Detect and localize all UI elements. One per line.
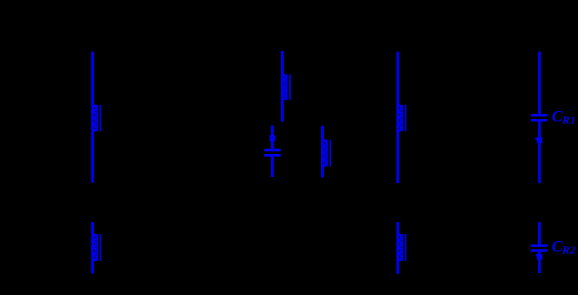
inductor branch3 upper (iron core) [398, 105, 406, 131]
wire branch2 left sub-branch upper [271, 126, 274, 150]
arrow marker below CR2 [536, 254, 543, 260]
wire branch2 left sub-branch lower [271, 157, 274, 177]
svg-text:C: C [552, 237, 563, 255]
wire branch4 top [538, 52, 541, 115]
inductor branch1 upper (iron core) [93, 105, 101, 131]
inductor branch2 series (iron core) [282, 74, 290, 100]
wire branch1 top [91, 52, 94, 183]
arrow marker below CR1 [535, 137, 542, 143]
capacitor CR2 [531, 246, 548, 251]
label CR1 [552, 108, 576, 127]
inductor branch2 right (iron core) [323, 140, 331, 167]
wire branch1 bottom [91, 222, 94, 273]
svg-text:C: C [552, 108, 563, 126]
label CR2 [552, 237, 576, 256]
wire branch3 bottom [396, 222, 399, 274]
wire branch4 bottom [538, 252, 541, 273]
wire branch4 lower [538, 222, 541, 245]
wire branch2 top [281, 51, 284, 122]
wire branch3 top [396, 52, 399, 184]
inductor branch3 lower (iron core) [398, 234, 406, 261]
capacitor CR1 [531, 115, 548, 120]
wire branch2 right sub-branch [321, 126, 324, 178]
arrow marker on left sub-branch [270, 135, 276, 141]
wire branch4 middle [538, 122, 541, 184]
svg-text:R1: R1 [561, 115, 575, 127]
svg-text:R2: R2 [561, 244, 576, 256]
inductor branch1 lower (iron core) [93, 234, 101, 261]
capacitor branch2 left [264, 150, 281, 155]
